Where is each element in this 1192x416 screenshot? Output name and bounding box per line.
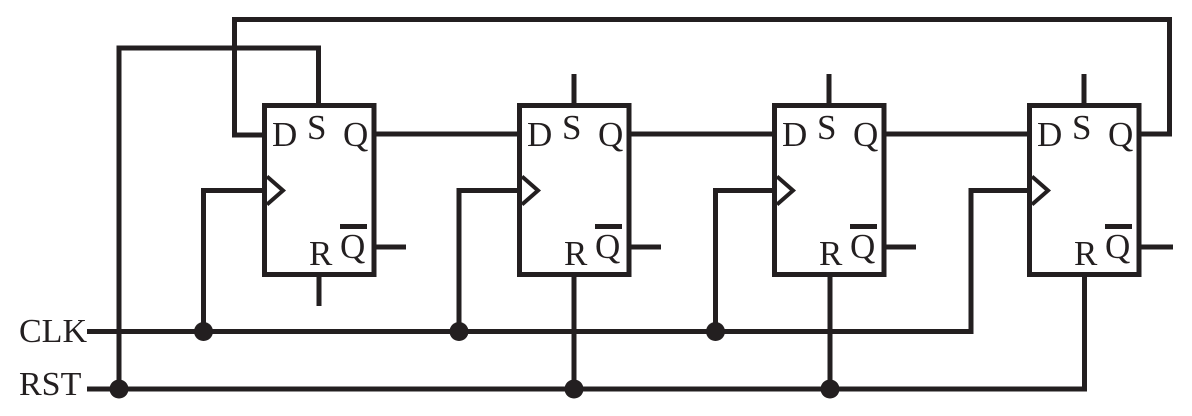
clock triangle U2 [522, 177, 538, 205]
svg-text:S: S [1072, 108, 1091, 147]
clock triangle U4 [1032, 177, 1048, 205]
clock triangle U1 [267, 177, 283, 205]
overbar Qbar2 [595, 224, 622, 229]
pin stub Qbar3 [884, 245, 916, 250]
svg-text:Q: Q [595, 227, 620, 266]
wire RST line [87, 275, 1085, 389]
junction dot RST-FF2 [565, 380, 584, 399]
svg-text:S: S [307, 108, 326, 147]
wire Q2 to D3 [629, 132, 774, 137]
wire Q1 to D2 [374, 132, 519, 137]
svg-text:S: S [562, 108, 581, 147]
svg-text:R: R [309, 234, 333, 273]
wire RST riser FF3 [828, 275, 833, 389]
wire CLK riser FF3 [716, 191, 776, 332]
svg-text:R: R [1074, 234, 1098, 273]
wire CLK riser FF1 [204, 191, 266, 332]
pin stub Qbar4 [1139, 245, 1173, 250]
svg-text:Q: Q [1105, 227, 1130, 266]
svg-text:D: D [782, 115, 807, 154]
junction dot CLK-FF2 [450, 322, 469, 341]
box U3 [775, 106, 885, 275]
overbar Qbar4 [1105, 224, 1132, 229]
svg-text:R: R [564, 234, 588, 273]
flip-flop U2 [520, 74, 662, 275]
clock triangle U3 [777, 177, 793, 205]
pin stub Qbar1 [374, 245, 406, 250]
svg-text:R: R [819, 234, 843, 273]
svg-text:CLK: CLK [19, 313, 87, 350]
svg-text:Q: Q [1108, 115, 1133, 154]
flip-flop U1 [265, 106, 407, 307]
pin stub S2 top (unconnected) [572, 74, 577, 106]
junction dot RST-FF3 [821, 380, 840, 399]
pin stub S3 top (unconnected) [827, 74, 832, 106]
pin stub R1 bottom (unconnected) [317, 275, 322, 306]
wire RST riser to S1 [119, 48, 319, 390]
box U2 [520, 106, 630, 275]
wire CLK line [87, 191, 1030, 332]
svg-text:RST: RST [19, 366, 82, 403]
svg-text:D: D [1037, 115, 1062, 154]
overbar Qbar1 [340, 224, 367, 229]
overbar Qbar3 [850, 224, 877, 229]
pin stub Qbar2 [629, 245, 661, 250]
box U4 [1030, 106, 1140, 275]
flip-flop U4 [1030, 74, 1174, 275]
svg-text:Q: Q [850, 227, 875, 266]
flip-flop U3 [775, 74, 917, 275]
svg-text:Q: Q [340, 227, 365, 266]
svg-text:Q: Q [853, 115, 878, 154]
wire feedback net: Q4 up over top to D1 [235, 20, 1170, 136]
box U1 [265, 106, 375, 275]
junction dot CLK-FF3 [706, 322, 725, 341]
wire CLK riser FF2 [459, 191, 520, 332]
junction dot CLK-FF1 [194, 322, 213, 341]
wire RST riser FF2 [572, 275, 577, 389]
svg-text:Q: Q [598, 115, 623, 154]
svg-text:D: D [272, 115, 297, 154]
svg-text:D: D [527, 115, 552, 154]
svg-text:Q: Q [343, 115, 368, 154]
svg-text:S: S [817, 108, 836, 147]
wire Q3 to D4 [884, 132, 1029, 137]
pin stub S4 top (unconnected) [1082, 74, 1087, 106]
junction dot RST-S1 [110, 380, 129, 399]
